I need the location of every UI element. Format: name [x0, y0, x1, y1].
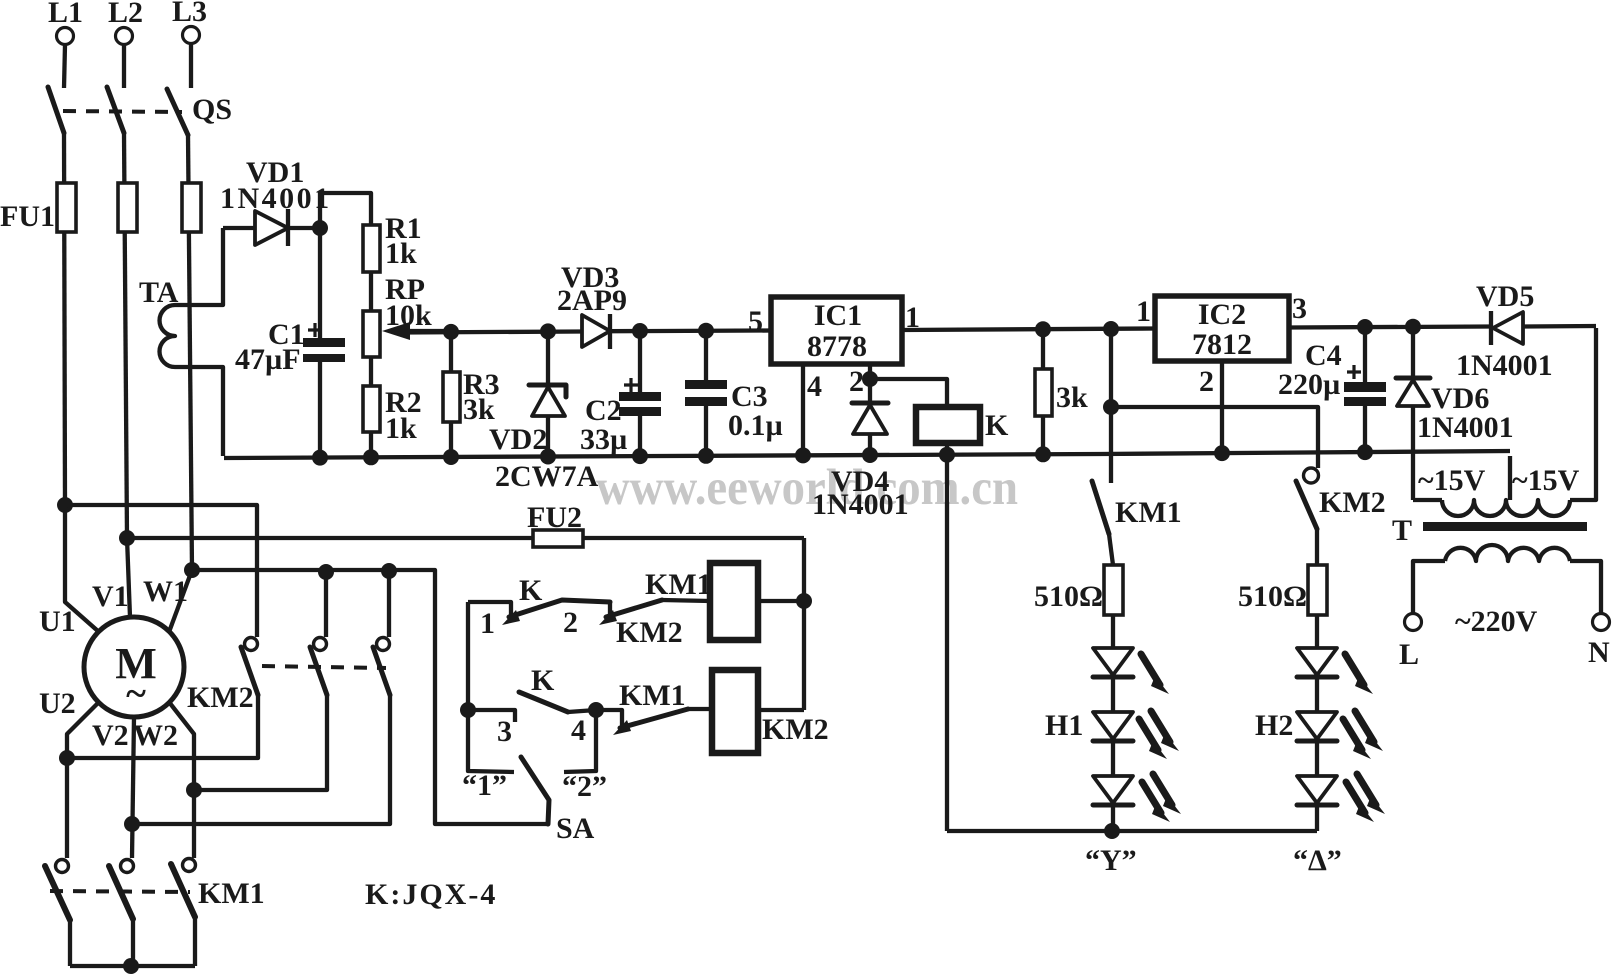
- KM2 linkage dashed: [262, 666, 386, 668]
- switch QS linkage dashed: [63, 111, 182, 112]
- svg-text:V1: V1: [92, 580, 129, 613]
- svg-text:“1”: “1”: [462, 769, 507, 802]
- node L3 terminal: [183, 27, 200, 44]
- capacitor C2 33u: [638, 331, 642, 393]
- svg-text:~15V: ~15V: [1418, 464, 1486, 497]
- svg-text:1N4001: 1N4001: [812, 488, 909, 521]
- svg-text:1: 1: [480, 607, 495, 640]
- diode VD4 1N4001: [868, 379, 872, 403]
- svg-text:0.1µ: 0.1µ: [728, 409, 783, 442]
- resistor R2 1k: [363, 386, 380, 432]
- svg-text:IC1: IC1: [814, 299, 862, 332]
- node VD2-rail junction: [540, 449, 556, 465]
- node +12V junction: [1103, 321, 1119, 337]
- svg-text:T: T: [1392, 514, 1412, 547]
- wire down to lamp branches: [1109, 329, 1113, 483]
- contactor KM2 pole3: [387, 571, 391, 637]
- contact K 3-4: [468, 710, 515, 722]
- wire U1 lead: [65, 505, 99, 632]
- svg-text:L3: L3: [172, 0, 207, 28]
- svg-text:TA: TA: [139, 276, 179, 309]
- fuse FU2: [533, 530, 583, 547]
- node L3 tap junction: [184, 562, 200, 578]
- bolts H1: [1141, 654, 1169, 694]
- LED H1 a: [1093, 648, 1133, 677]
- svg-text:2: 2: [849, 365, 864, 398]
- wire L1 branch to KM2 pole1: [65, 505, 257, 637]
- transformer T primary winding: [1445, 545, 1570, 561]
- zener diode VD2 2CW7A: [546, 331, 550, 384]
- LED H2 a: [1297, 648, 1337, 677]
- svg-text:“2”: “2”: [562, 770, 607, 803]
- capacitor C4 220u: [1357, 319, 1373, 335]
- LED H2 c: [1297, 776, 1337, 805]
- wire VD5 to secondary: [1570, 328, 1596, 500]
- svg-text:“Y”: “Y”: [1085, 844, 1137, 877]
- svg-text:KM1: KM1: [198, 877, 265, 910]
- wire L2 drop: [122, 45, 126, 88]
- svg-text:W1: W1: [143, 575, 188, 608]
- svg-text:FU2: FU2: [527, 501, 582, 534]
- bolts H2: [1345, 654, 1373, 694]
- svg-text:1N4001: 1N4001: [220, 182, 332, 215]
- svg-text:QS: QS: [192, 93, 232, 126]
- svg-text:KM2: KM2: [1319, 486, 1386, 519]
- node L1 tap junction: [57, 497, 73, 513]
- svg-text:H2: H2: [1255, 709, 1293, 742]
- IC2 7812 box: [1155, 296, 1289, 361]
- wire L2 to fuse: [124, 133, 127, 538]
- svg-text:~220V: ~220V: [1455, 605, 1538, 638]
- svg-text:U1: U1: [39, 605, 76, 638]
- wire center tap: [1508, 456, 1512, 500]
- contactor KM2 pole1: [245, 638, 258, 651]
- svg-text:K:JQX-4: K:JQX-4: [365, 878, 497, 911]
- node L terminal: [1405, 614, 1422, 631]
- svg-text:FU1: FU1: [0, 200, 55, 233]
- svg-text:V2: V2: [92, 719, 129, 752]
- contactor KM2 pole2: [324, 572, 328, 637]
- svg-text:VD2: VD2: [489, 423, 547, 456]
- resistor 510ohm (left): [1109, 534, 1113, 565]
- wire terminal "2" branch: [564, 710, 596, 772]
- wire terminal "1" branch: [468, 710, 514, 772]
- svg-text:2: 2: [563, 606, 578, 639]
- selector switch SA: [521, 757, 549, 824]
- fuse FU1 pole3: [182, 183, 201, 232]
- resistor 510ohm (right): [1315, 529, 1319, 565]
- contactor KM1 star pole1: [56, 860, 69, 873]
- transformer core: [1423, 522, 1587, 531]
- svg-text:SA: SA: [556, 812, 595, 845]
- svg-text:VD5: VD5: [1476, 280, 1534, 313]
- IC U1: IC1 8778: [771, 297, 902, 364]
- svg-text:7812: 7812: [1192, 328, 1252, 361]
- contactor coil KM1: [710, 563, 758, 640]
- svg-text:1: 1: [1136, 295, 1151, 328]
- wire lamp bus: [1111, 407, 1318, 468]
- wire R2 to rail: [369, 432, 373, 459]
- wire main bottom rail: [224, 451, 1510, 458]
- RP wiper arrow: [404, 329, 451, 333]
- wire K row1 left: [468, 602, 511, 621]
- motor M: [84, 617, 184, 717]
- relay coil K: [916, 407, 980, 443]
- wire V2 lead: [132, 717, 134, 858]
- svg-text:8778: 8778: [807, 330, 867, 363]
- wire FU2 feeder drop right side: [802, 538, 806, 710]
- wire TA bottom lead: [175, 367, 223, 456]
- capacitor C3 0.1u: [704, 331, 708, 381]
- diode VD3 2AP9: [582, 315, 610, 347]
- wire IC1 pin2: [870, 364, 947, 407]
- svg-text:N: N: [1588, 636, 1610, 669]
- svg-text:510Ω: 510Ω: [1238, 580, 1307, 613]
- contact KM1 interlock row2: [596, 710, 622, 727]
- LED H1 c: [1093, 776, 1133, 805]
- wire U2 lead: [67, 702, 99, 858]
- svg-text:1N4001: 1N4001: [1417, 411, 1514, 444]
- svg-text:3k: 3k: [1056, 381, 1088, 414]
- wire L1 drop: [64, 45, 65, 88]
- svg-text:33µ: 33µ: [580, 423, 627, 456]
- wire lamp bottom rail: [947, 829, 1317, 833]
- resistor 3k: [1035, 321, 1051, 337]
- svg-text:KM1: KM1: [619, 679, 686, 712]
- fuse FU1 pole2: [118, 183, 137, 232]
- svg-text:H1: H1: [1045, 709, 1083, 742]
- svg-text:4: 4: [571, 714, 586, 747]
- svg-text:KM1: KM1: [1115, 496, 1182, 529]
- svg-text:2AP9: 2AP9: [557, 284, 627, 317]
- wire IC1 pin4 to rail: [801, 364, 805, 457]
- svg-text:KM2: KM2: [616, 616, 683, 649]
- svg-text:“Δ”: “Δ”: [1293, 844, 1342, 877]
- svg-text:L1: L1: [48, 0, 83, 29]
- wire L1 to fuse: [64, 133, 65, 505]
- svg-text:www.eeworld.com.cn: www.eeworld.com.cn: [596, 460, 1018, 516]
- node C2-rail junction: [632, 448, 648, 464]
- svg-text:KM2: KM2: [187, 681, 254, 714]
- contactor coil KM2: [712, 670, 758, 753]
- svg-text:2CW7A: 2CW7A: [495, 460, 599, 493]
- node C1-rail junction: [312, 450, 328, 466]
- wire W2 lead: [169, 702, 194, 858]
- switch QS pole 2: [107, 87, 124, 133]
- node R3-rail junction: [443, 449, 459, 465]
- contactor KM1 star pole2: [121, 860, 134, 873]
- node C3-rail junction: [698, 448, 714, 464]
- resistor R3 3k: [449, 332, 453, 372]
- node C2-bus junction: [632, 323, 648, 339]
- wire W1 lead: [169, 570, 192, 632]
- svg-text:4: 4: [807, 370, 822, 403]
- node L2 tap junction: [119, 530, 135, 546]
- LED H2 b: [1297, 712, 1337, 741]
- LED H1 b: [1093, 712, 1133, 741]
- node VD1 cathode junction: [312, 220, 328, 236]
- diode VD6 1N4001: [1405, 319, 1421, 335]
- svg-text:K: K: [519, 574, 543, 607]
- svg-text:5: 5: [748, 305, 763, 338]
- node L1 terminal: [57, 28, 74, 45]
- potentiometer RP 10k: [363, 311, 380, 357]
- svg-text:~: ~: [126, 673, 146, 715]
- svg-text:3: 3: [1292, 292, 1307, 325]
- svg-text:1N4001: 1N4001: [1456, 349, 1553, 382]
- svg-text:L: L: [1399, 638, 1419, 671]
- switch QS pole 1: [48, 87, 64, 133]
- svg-text:510Ω: 510Ω: [1034, 580, 1103, 613]
- svg-text:1k: 1k: [385, 412, 417, 445]
- svg-text:~15V: ~15V: [1512, 464, 1580, 497]
- wire junction up to R1: [320, 193, 371, 228]
- contact KM2 lamp branch hook: [1304, 468, 1319, 483]
- wire IC2 pin2 to rail: [1220, 361, 1224, 455]
- svg-text:KM2: KM2: [762, 713, 829, 746]
- svg-text:220µ: 220µ: [1278, 368, 1340, 401]
- wire IC1 pin1 to IC2: [902, 329, 1155, 331]
- svg-text:K: K: [531, 664, 555, 697]
- contact KM2 interlock row1: [599, 610, 617, 625]
- wire K row left drop: [466, 602, 470, 710]
- node L2 terminal: [116, 28, 133, 45]
- wire FU2 feeder: [127, 536, 804, 540]
- capacitor C1 47uF: [318, 228, 322, 339]
- svg-text:K: K: [985, 409, 1009, 442]
- svg-text:IC2: IC2: [1198, 298, 1246, 331]
- svg-text:2: 2: [1199, 365, 1214, 398]
- svg-text:3k: 3k: [463, 393, 495, 426]
- svg-text:KM1: KM1: [645, 568, 712, 601]
- transformer T secondary winding: [1413, 498, 1442, 502]
- wire regulated bus: [404, 331, 771, 333]
- fuse FU1 pole1: [57, 183, 76, 232]
- node C3-bus junction: [698, 323, 714, 339]
- contact KM1 lamp branch: [1092, 481, 1109, 534]
- wire IC2 pin3 bus: [1289, 326, 1596, 328]
- svg-text:47µF: 47µF: [235, 343, 301, 376]
- wire V1 lead: [127, 538, 130, 617]
- wire L3 drop: [189, 44, 193, 88]
- node VD2-bus junction: [540, 323, 556, 339]
- svg-text:1k: 1k: [385, 237, 417, 270]
- KM1 linkage dashed: [50, 891, 190, 892]
- svg-text:L2: L2: [108, 0, 143, 29]
- svg-text:W2: W2: [133, 719, 178, 752]
- diode VD1: [223, 226, 255, 230]
- wire TA top lead: [175, 228, 223, 305]
- resistor R1 1k: [363, 225, 380, 272]
- switch QS pole 3: [167, 89, 188, 135]
- wire star point: [70, 964, 195, 968]
- svg-text:3: 3: [497, 715, 512, 748]
- svg-text:U2: U2: [39, 687, 76, 720]
- wire RP to R2: [369, 357, 373, 386]
- node N terminal: [1593, 614, 1610, 631]
- wire R1 to RP: [369, 272, 373, 311]
- wire L3 to fuse: [188, 135, 192, 570]
- current transformer TA: [160, 305, 176, 367]
- node R3-bus junction: [443, 324, 459, 340]
- wire L3 branch to SA: [192, 570, 548, 824]
- node R2-rail junction: [363, 449, 379, 465]
- wire 0V drop to lamp rail: [945, 455, 949, 831]
- diode VD5 1N4001: [1489, 311, 1493, 345]
- contactor KM1 star pole3: [183, 859, 196, 872]
